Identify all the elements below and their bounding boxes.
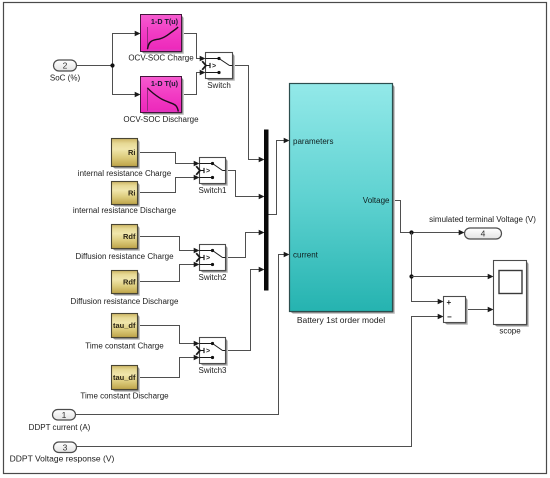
svg-text:Rdf: Rdf	[123, 278, 136, 287]
svg-text:Rdf: Rdf	[123, 232, 136, 241]
svg-text:scope: scope	[499, 327, 521, 336]
svg-text:Battery 1st order model: Battery 1st order model	[297, 315, 385, 325]
svg-text:>: >	[206, 348, 210, 355]
svg-text:Time constant Discharge: Time constant Discharge	[80, 392, 169, 401]
svg-text:3: 3	[63, 442, 68, 452]
svg-text:1: 1	[62, 410, 67, 420]
svg-text:Switch: Switch	[207, 81, 231, 90]
svg-text:tau_df: tau_df	[113, 373, 136, 382]
svg-text:tau_df: tau_df	[113, 321, 136, 330]
svg-text:−: −	[447, 313, 452, 322]
svg-text:current: current	[293, 251, 319, 260]
svg-text:2: 2	[63, 61, 68, 71]
svg-text:1-D T(u): 1-D T(u)	[151, 17, 179, 26]
svg-text:DDPT current (A): DDPT current (A)	[29, 423, 91, 432]
svg-text:Ri: Ri	[128, 148, 136, 157]
svg-text:Time constant Charge: Time constant Charge	[85, 342, 164, 351]
svg-text:OCV-SOC Charge: OCV-SOC Charge	[128, 54, 194, 63]
svg-text:SoC (%): SoC (%)	[50, 74, 81, 83]
svg-text:parameters: parameters	[293, 137, 333, 146]
svg-text:>: >	[206, 168, 210, 175]
svg-text:Switch3: Switch3	[198, 366, 227, 375]
svg-text:Ri: Ri	[128, 189, 136, 198]
svg-text:internal resistance Charge: internal resistance Charge	[78, 169, 172, 178]
svg-text:Switch2: Switch2	[198, 273, 227, 282]
svg-text:>: >	[206, 255, 210, 262]
svg-text:>: >	[212, 63, 216, 70]
svg-text:Diffusion resistance Discharge: Diffusion resistance Discharge	[71, 297, 179, 306]
svg-text:internal resistance Discharge: internal resistance Discharge	[73, 206, 177, 215]
svg-text:simulated terminal Voltage (V): simulated terminal Voltage (V)	[429, 215, 536, 224]
svg-text:+: +	[447, 298, 452, 307]
svg-text:Switch1: Switch1	[198, 186, 227, 195]
svg-text:Voltage: Voltage	[363, 196, 390, 205]
svg-text:OCV-SOC Discharge: OCV-SOC Discharge	[123, 115, 199, 124]
svg-text:1-D T(u): 1-D T(u)	[151, 79, 179, 88]
svg-text:Diffusion resistance Charge: Diffusion resistance Charge	[75, 252, 174, 261]
svg-text:DDPT Voltage response (V): DDPT Voltage response (V)	[10, 454, 115, 464]
svg-text:4: 4	[481, 229, 486, 239]
